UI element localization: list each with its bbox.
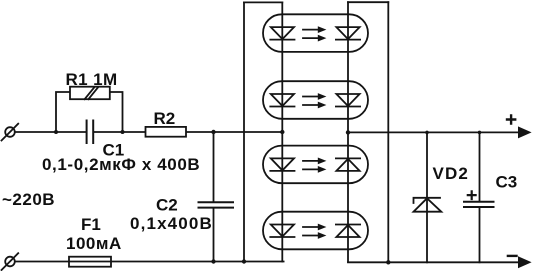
svg-text:0,1x400В: 0,1x400В [130,214,213,233]
LED U4 left (down) [271,225,294,237]
capacitor C2 top plate [199,201,234,203]
wire: right top cap [348,1,388,3]
capacitor C1 right plate [92,121,94,144]
node: junction dot left of R1 branch [54,130,58,134]
LED U3 left (down) [271,158,294,170]
resistor R1 diagonal slashes [85,87,98,99]
LED U2 left (down) [271,94,294,106]
node: junction dot LED rail / main wire [280,130,284,134]
wire: minus output wire [348,261,519,263]
optocoupler U1 [263,14,368,52]
node: junction dot outer-left rail bottom [242,259,246,263]
photodiode U1 right (down) [336,27,359,39]
wire: top main wire (C1 right plate to LED rail) [94,131,283,133]
wire: VD2 branch [426,132,428,262]
wire: C2 branch lower [213,208,215,261]
svg-text:R1 1M: R1 1M [66,70,118,89]
wire: plus output wire [348,131,519,133]
wire: C3 branch upper [479,132,481,201]
node: junction dot outer-right rail bottom [386,260,390,264]
minus output arrowhead [518,256,532,268]
light arrows U4 [303,226,318,228]
node: junction dot right of R1 branch [121,130,125,134]
light arrows U2 [303,96,318,98]
wire: R1 parallel branch (up, across, down) [56,92,123,132]
photodiode U3 right (up) [336,159,359,171]
resistor R1 body [70,87,110,100]
wire: inner-right photodiode rail [347,2,349,262]
svg-text:~220В: ~220В [2,190,55,209]
resistor R2 body [146,127,187,137]
zener diode VD2 (cathode bar with hook, triangle up) [414,198,441,203]
svg-text:C3: C3 [496,172,518,191]
svg-text:100мА: 100мА [66,234,122,253]
node: junction dot C2 bottom [211,259,215,263]
wire: left top cap [244,1,282,3]
input terminal bottom (circle with slash) [5,257,15,267]
plus output arrowhead [518,126,532,138]
capacitor C3 bottom plate [464,206,494,208]
plus output sign [507,115,515,123]
photodiode U4 right (up) [336,225,359,237]
wire: C3 branch lower [479,208,481,262]
svg-text:0,1-0,2мкФ x 400В: 0,1-0,2мкФ x 400В [42,155,200,174]
wire: top main wire left segment (terminal to C1 left plate) [15,131,86,133]
svg-text:VD2: VD2 [433,164,469,183]
input terminal top (circle with slash) [5,127,15,137]
wire: inner-left LED rail [281,2,283,261]
optocoupler U4 [263,212,368,250]
C3 polarity plus sign [468,191,476,199]
capacitor C3 top plate [464,201,494,203]
wire: C2 branch upper [213,132,215,202]
optocoupler U3 [263,146,368,184]
svg-text:C2: C2 [156,196,178,215]
wire: outer-left rail [243,2,245,261]
svg-text:R2: R2 [154,109,176,128]
minus output sign [508,255,517,257]
wire: outer-right rail [387,2,389,262]
light arrows U1 [303,29,318,31]
node: junction dot PD rail / plus wire [346,130,350,134]
fuse F1 body [69,257,111,267]
capacitor C2 bottom plate [199,207,234,209]
LED U1 left (down) [271,27,294,39]
wire: bottom main wire left segment [15,261,284,263]
svg-text:F1: F1 [81,215,101,234]
photodiode U2 right (down) [336,94,359,106]
node: junction dot C2 top [211,130,215,134]
optocoupler U2 [263,81,368,119]
capacitor C1 left plate [86,121,88,144]
light arrows U3 [303,160,318,162]
